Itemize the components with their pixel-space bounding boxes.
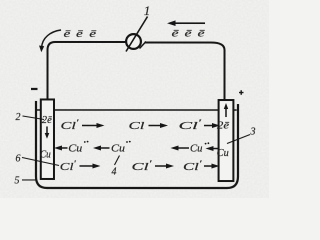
pointer line through device to label 1 (126, 16, 148, 51)
svg-text:Cu: Cu (40, 149, 51, 160)
device 1 (ammeter/source) circle (126, 34, 141, 49)
svg-text:ē: ē (89, 28, 96, 40)
up arrow in anode (225, 108, 227, 118)
svg-text:Cu: Cu (68, 142, 83, 154)
water line (37, 109, 41, 111)
svg-text:ē: ē (185, 28, 192, 40)
plus sign (239, 92, 244, 94)
arrow above right electron group pointing left (174, 22, 205, 24)
tick at right junction of device (140, 42, 147, 49)
svg-text:2ē: 2ē (42, 115, 53, 126)
svg-text:Cl: Cl (128, 120, 144, 132)
wire right horizontal + top-right corner (144, 43, 224, 100)
svg-text:ē: ē (76, 28, 83, 40)
wire left vertical + top-left corner (48, 42, 127, 99)
svg-text:1: 1 (144, 3, 151, 18)
svg-text:Cu: Cu (111, 142, 126, 154)
minus sign (31, 88, 38, 90)
bath (tank) 5 (36, 101, 238, 188)
svg-text:5: 5 (14, 175, 19, 186)
svg-text:2: 2 (15, 112, 20, 123)
svg-text:6: 6 (15, 153, 20, 164)
svg-text:ē: ē (172, 28, 179, 40)
svg-text:Cu: Cu (217, 148, 229, 159)
cathode (left electrode) 2 (41, 99, 54, 179)
svg-text:4: 4 (111, 166, 116, 177)
svg-text:ē: ē (64, 28, 71, 40)
svg-text:2ē: 2ē (217, 121, 230, 132)
row 2: <-Cu" <-Cu" <-Cu" <- (60, 147, 68, 149)
svg-text:3: 3 (249, 127, 255, 138)
curved arrow into cathode (42, 30, 61, 48)
anode (right electrode) 3 (219, 100, 234, 181)
svg-text:Cu: Cu (190, 143, 203, 155)
svg-text:ē: ē (198, 28, 205, 40)
down arrow in cathode (46, 126, 48, 135)
